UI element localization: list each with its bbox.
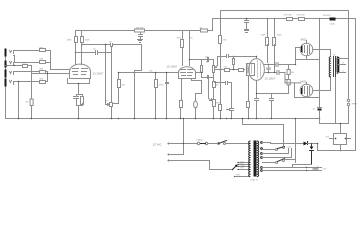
wire mid drop xyxy=(134,71,136,119)
wire wiper feed xyxy=(105,45,107,105)
node tap4 xyxy=(306,167,307,168)
diode D1 xyxy=(304,142,308,146)
capacitor C5 (tone) xyxy=(166,73,169,119)
resistor R19 (PI plate load 2) xyxy=(273,38,276,46)
svg-text:1M: 1M xyxy=(26,102,29,104)
node grid2 join xyxy=(47,73,48,74)
node bus V1k xyxy=(78,118,80,120)
node bus VR1 xyxy=(111,118,113,120)
switch S3 (standby) xyxy=(276,149,278,151)
potentiometer arrow (PI tail) xyxy=(209,78,212,101)
wire V3 plate2 to R19 xyxy=(274,45,276,73)
resistor R30 (grid leak) xyxy=(30,99,33,106)
jack J5 (speaker) xyxy=(347,99,349,101)
wire plate1 coupling xyxy=(76,47,112,103)
wire R22-R23 xyxy=(285,75,289,80)
node AC prong 3 xyxy=(168,160,170,162)
wire J1 shorting contact xyxy=(14,56,15,63)
selector SW2 xyxy=(233,165,238,170)
svg-text:220K: 220K xyxy=(177,38,182,40)
wire tail cap xyxy=(215,83,232,109)
wire plate2 coupling xyxy=(83,45,142,71)
jack J3 xyxy=(6,71,14,77)
wire V3 plate1 xyxy=(265,64,276,66)
capacitor C10 (screen filter) xyxy=(245,19,249,30)
svg-text:68K: 68K xyxy=(40,69,44,71)
svg-text:6AQ5: 6AQ5 xyxy=(301,39,308,42)
wire jack sleeve bus xyxy=(5,50,7,119)
wire bias taps xyxy=(263,168,314,171)
resistor R23 (6AQ5 grid leak lower) xyxy=(287,80,290,85)
wire V1 cathode box xyxy=(68,79,90,95)
svg-text:6.3V: 6.3V xyxy=(323,169,327,171)
wire C9 out xyxy=(280,73,286,83)
svg-text:8: 8 xyxy=(343,63,344,65)
capacitor C2 (filter) xyxy=(139,33,143,40)
resistor R8 (plate load right) xyxy=(81,37,84,43)
wire R8 top xyxy=(81,31,83,37)
resistor R4 xyxy=(40,71,46,74)
svg-text:40: 40 xyxy=(317,167,319,169)
wire upper 6AQ5 grid xyxy=(296,48,301,65)
wire lower 6AQ5 grid xyxy=(285,82,301,84)
tube V3 internals xyxy=(258,61,261,78)
switch S4 xyxy=(263,162,276,164)
capacitor C19 xyxy=(227,109,234,119)
svg-text:117 VAC: 117 VAC xyxy=(153,144,162,147)
wire R4 join xyxy=(46,72,48,82)
ground (C2) xyxy=(138,40,143,43)
node J4 xyxy=(18,81,19,82)
node R19 top xyxy=(274,18,276,20)
wire V1 plate1 up xyxy=(75,43,77,65)
svg-text:COM: COM xyxy=(236,175,241,177)
wire V2 cathode 2 xyxy=(192,79,202,101)
capacitor C20 (plate-to-plate) xyxy=(267,65,271,73)
svg-text:68K: 68K xyxy=(40,59,44,61)
wire V5 plate xyxy=(313,77,331,91)
wire J2 tip xyxy=(14,62,40,64)
svg-text:1/2 12AX7: 1/2 12AX7 xyxy=(265,78,276,81)
wire NFB lower xyxy=(220,45,222,105)
wire PI grid line xyxy=(215,69,245,71)
tube V3 (phase inverter) xyxy=(249,59,265,81)
tube V1 envelope xyxy=(70,64,91,78)
wire VR1 wiper up xyxy=(113,89,119,104)
tube V2 envelope xyxy=(179,67,196,79)
wire heater taps xyxy=(263,149,292,158)
svg-text:1M: 1M xyxy=(122,85,125,87)
wire V4 plate xyxy=(313,50,331,57)
wire grid1 to V1 xyxy=(51,69,70,71)
wire D2 bottom xyxy=(293,165,312,168)
wire screen to cathode chain xyxy=(319,19,321,107)
resistor R9 (B+ dropper) xyxy=(135,29,145,32)
ground bus xyxy=(6,118,320,120)
wire AC line 2 xyxy=(169,161,233,170)
resistor R27 xyxy=(239,69,244,72)
svg-text:100K: 100K xyxy=(85,40,91,42)
node PI grid xyxy=(220,69,222,71)
svg-text:1M: 1M xyxy=(291,72,294,74)
wire NFB vertical xyxy=(220,11,222,36)
capacitor C4 (coupling lower) xyxy=(96,51,98,55)
capacitor C15 (bias) xyxy=(313,168,318,171)
svg-text:4.7K 5W: 4.7K 5W xyxy=(284,15,292,17)
svg-text:100K: 100K xyxy=(261,35,267,37)
resistor R22 (6AQ5 grid leak upper) xyxy=(288,65,290,70)
transformer T1 secondary xyxy=(257,141,258,177)
wire J2 ring xyxy=(6,65,23,67)
fuse F1 xyxy=(197,142,200,145)
wire grid2 to V1 xyxy=(32,73,70,75)
svg-text:1M: 1M xyxy=(206,62,209,64)
resistor R11 (tone) xyxy=(118,80,121,88)
wire V3 plate1 to R18 xyxy=(267,45,269,63)
secondary terminals xyxy=(261,142,263,172)
capacitor C9 (coupling to lower 6AQ5) xyxy=(277,71,279,75)
ground (C10) xyxy=(245,30,249,33)
wire REC1 bottom xyxy=(340,145,342,151)
resistor R14 (V2 cathode) xyxy=(180,101,183,108)
resistor R12 (tone) xyxy=(155,73,157,119)
svg-text:470K: 470K xyxy=(159,85,165,87)
resistor R21 (supply dropper) xyxy=(299,18,305,21)
resistor R13 (V2 plate load) xyxy=(181,40,184,48)
node AC prong 1 xyxy=(168,143,170,145)
node cathode join xyxy=(256,93,257,94)
resistor R1 xyxy=(40,49,46,52)
wire AC prong2 xyxy=(169,154,184,156)
wire AC vertical from bus xyxy=(183,119,185,155)
wire V3 cathode xyxy=(256,81,258,99)
wire ground return line xyxy=(320,119,349,124)
resistor R16b xyxy=(213,88,215,100)
switch S1 xyxy=(218,143,220,145)
resistor R28 (PI grid return) xyxy=(247,102,250,108)
jack J4 xyxy=(6,80,14,86)
resistor R6 (cathode) xyxy=(77,95,83,119)
transformer T2 secondary (dark) xyxy=(337,57,339,73)
wire secondary taps xyxy=(339,59,349,73)
svg-text:.02: .02 xyxy=(109,42,113,44)
node B+ feed xyxy=(319,18,321,20)
capacitor C13 xyxy=(270,99,274,119)
wire wiper top xyxy=(215,57,257,68)
node plate1 xyxy=(268,64,269,65)
resistor R18 (PI plate load 1) xyxy=(266,38,269,46)
wire heater tap standby xyxy=(263,149,276,151)
potentiometer VR1 (volume) xyxy=(110,103,113,107)
tube V2 internals xyxy=(181,70,193,76)
wire V2 plate1 up xyxy=(182,49,184,66)
node bus dots xyxy=(18,118,228,120)
resistor R10 (B+ dropper 2) xyxy=(201,29,208,32)
capacitor C3 (coupling upper) xyxy=(111,44,113,47)
capacitor C6 (V2 cathode bypass) xyxy=(194,101,198,108)
node V1 plate1 xyxy=(75,52,77,54)
tube V1 internals xyxy=(73,69,88,75)
wire NFB top line xyxy=(221,10,349,12)
node C10 xyxy=(246,18,248,20)
wire J4 to R5 xyxy=(19,81,40,83)
transformer T2 primary xyxy=(329,57,330,77)
resistor R15 (NFB) xyxy=(219,36,222,44)
capacitor C17 (ladder bottom) xyxy=(202,76,214,79)
labels left resistors xyxy=(23,38,228,103)
capacitor C12 xyxy=(255,99,259,119)
node plate2 C20 xyxy=(268,72,269,73)
resistor R24 (ladder left) xyxy=(201,60,203,78)
node grid2 V3 xyxy=(256,56,257,57)
resistor R26 xyxy=(225,69,230,72)
resistor R5 xyxy=(40,81,46,84)
node C9 junction xyxy=(274,72,275,73)
resistor R17 xyxy=(219,105,222,111)
node rect top xyxy=(340,123,342,125)
wire lower cathode loop xyxy=(295,83,320,98)
tube V4 (6AQ5 upper) xyxy=(300,43,313,56)
node tone left xyxy=(118,72,120,74)
node REC1 out xyxy=(340,150,342,152)
resistor R2 xyxy=(23,65,28,68)
transformer T1 core (dark) xyxy=(254,141,257,177)
wire J1 tip xyxy=(14,50,40,52)
node ring xyxy=(6,65,7,66)
wire AC line 1 xyxy=(169,143,250,145)
jack J2 xyxy=(6,62,14,67)
svg-text:6AQ5: 6AQ5 xyxy=(301,81,308,84)
svg-text:SPKR: SPKR xyxy=(352,104,358,106)
transformer T1 (power) primary xyxy=(249,141,250,177)
wire OT ground leg xyxy=(335,78,337,124)
svg-text:LINE T1: LINE T1 xyxy=(251,180,259,182)
wire speaker jack line xyxy=(348,11,350,100)
wire V1 plate2 up xyxy=(81,43,83,65)
svg-text:2 Amp: 2 Amp xyxy=(197,139,204,142)
wire R7 top xyxy=(75,31,77,37)
wire HT tap to diode xyxy=(263,143,304,144)
node cathode junction xyxy=(78,83,80,85)
svg-text:1M: 1M xyxy=(105,101,108,103)
wire V3 plate2 xyxy=(265,72,277,74)
capacitor C14 (cathode bypass, dark) xyxy=(318,107,322,109)
wire tone bus xyxy=(119,72,179,74)
svg-text:1/2 12AX7: 1/2 12AX7 xyxy=(167,66,178,69)
resistor R29 xyxy=(233,57,235,70)
capacitor C8 (coupling to upper 6AQ5) xyxy=(276,63,278,67)
svg-text:C11A: C11A xyxy=(330,23,336,26)
node wiper feed xyxy=(105,44,106,45)
wire J4 tip xyxy=(14,82,19,119)
wire J3 tip xyxy=(14,71,40,73)
resistor R16a xyxy=(213,78,215,82)
node D2 top xyxy=(311,143,313,145)
tube V5 internals xyxy=(303,87,310,96)
jack J1 xyxy=(6,50,14,56)
capacitor C1 (cathode bypass) xyxy=(74,95,79,106)
node V2 out ladder xyxy=(201,72,202,73)
node bus mid xyxy=(134,118,136,120)
svg-text:47K: 47K xyxy=(224,67,228,69)
node bus end xyxy=(319,118,321,120)
wire rect box top lead xyxy=(340,124,342,134)
capacitor C18 (wiper) xyxy=(227,55,229,58)
svg-text:25: 25 xyxy=(313,109,316,111)
node R18 top xyxy=(267,18,269,20)
svg-text:68K: 68K xyxy=(40,79,44,81)
node wiper wire xyxy=(233,56,234,57)
svg-text:68K: 68K xyxy=(40,48,44,50)
resistor R25 (ladder right) xyxy=(213,60,215,78)
svg-text:4: 4 xyxy=(343,71,344,73)
svg-text:470K: 470K xyxy=(216,103,221,105)
wire V2 plate2 up xyxy=(189,31,191,66)
capacitor C7 xyxy=(226,82,228,85)
svg-text:4.7K 5W: 4.7K 5W xyxy=(297,15,305,17)
svg-text:1/2 12AX7: 1/2 12AX7 xyxy=(93,73,104,76)
wire screen supply line xyxy=(213,19,356,151)
resistor R7 (plate load left) xyxy=(75,37,78,43)
wire CT to bus xyxy=(295,119,297,163)
node grid junction xyxy=(295,64,296,65)
wire B+ rail preamp xyxy=(76,19,213,31)
wire R3 to grid1 xyxy=(46,63,51,70)
rectifier REC1 (square) xyxy=(334,134,347,145)
node AC prong 2 (gnd) xyxy=(168,154,170,156)
resistor R3 xyxy=(40,61,46,64)
node V1 plate2 xyxy=(82,44,84,46)
node AC junction xyxy=(183,143,185,145)
wire V3 grid return xyxy=(248,76,250,102)
transformer T2 core xyxy=(334,57,336,77)
capacitor C16 (ladder top) xyxy=(190,58,214,62)
svg-text:68K: 68K xyxy=(23,63,27,65)
wire rectifier output line xyxy=(318,150,356,152)
wire primary taps xyxy=(235,163,250,177)
svg-text:100K: 100K xyxy=(277,35,283,37)
node tap5 xyxy=(306,170,307,171)
tube V5 (6AQ5 lower) xyxy=(300,84,313,97)
wire V2 cathode 1 xyxy=(181,79,183,101)
wire R1 to mix node xyxy=(46,51,51,63)
svg-text:100K: 100K xyxy=(67,40,73,42)
svg-text:B+: B+ xyxy=(191,38,194,40)
labels primary taps xyxy=(236,162,246,177)
node D1 out xyxy=(317,143,319,145)
resistor R20 (supply dropper) xyxy=(287,18,293,21)
wire standby to ground line xyxy=(243,119,284,147)
svg-text:1M: 1M xyxy=(216,85,219,87)
wire upper cathode loop xyxy=(296,41,320,60)
wire R23 bottom xyxy=(257,85,289,99)
wire V2 out xyxy=(196,72,202,74)
svg-text:5V4: 5V4 xyxy=(326,137,329,139)
node tone mid xyxy=(134,72,136,74)
diode D2 xyxy=(310,147,314,150)
tube V4 internals xyxy=(303,46,310,55)
wire D1 out xyxy=(308,144,318,151)
wire R2 to grid2 xyxy=(28,66,32,100)
wire R5 join xyxy=(46,81,48,83)
wire C8 out xyxy=(279,64,296,66)
capacitor C11 (filter can, dark) xyxy=(330,18,336,21)
tube V3 grid box xyxy=(247,64,255,76)
wire R13 top xyxy=(182,31,184,40)
svg-text:22K: 22K xyxy=(223,40,227,42)
svg-text:10K 5W: 10K 5W xyxy=(136,28,145,30)
svg-text:40/525V: 40/525V xyxy=(323,15,331,17)
